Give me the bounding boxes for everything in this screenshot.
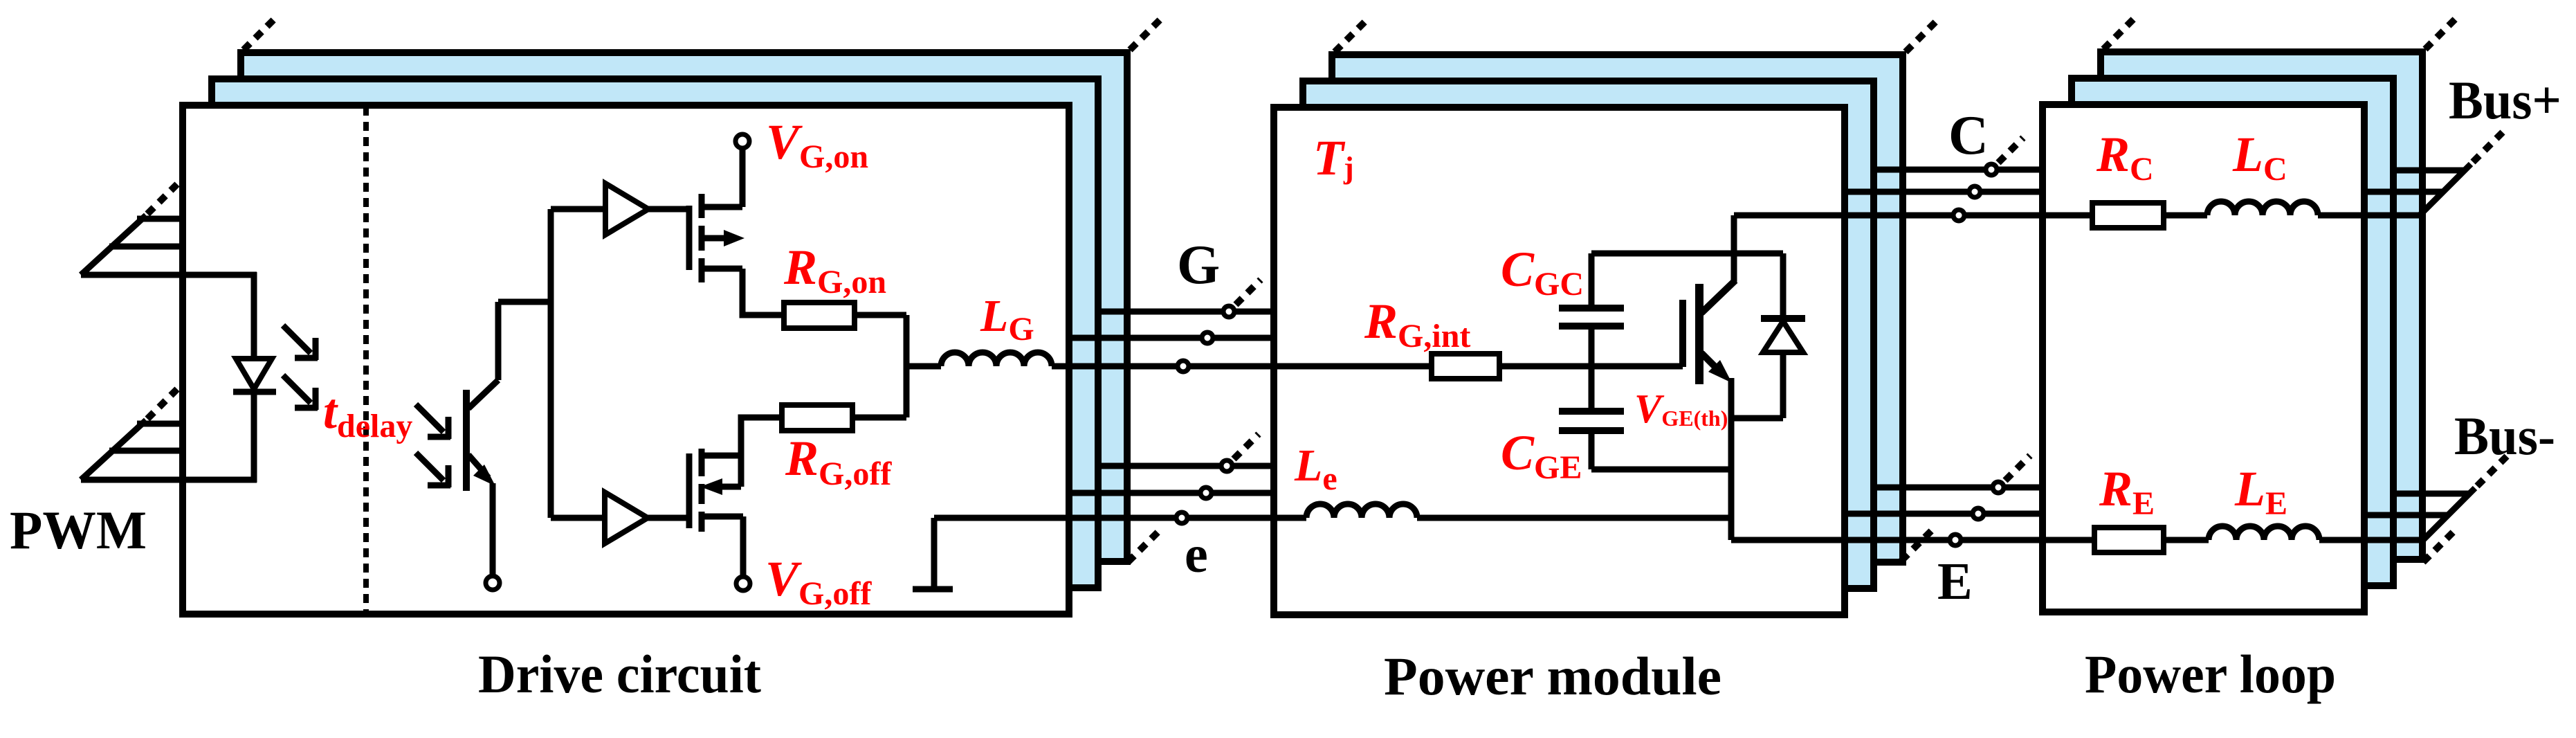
wire emitter to diode anode: [1731, 415, 1783, 422]
LED emission arrow 2: [283, 375, 318, 410]
power module box stack layer 2: [1303, 81, 1874, 588]
power module box stack layer 3 (back): [1332, 55, 1903, 562]
wire RG,int to IGBT gate: [1499, 363, 1683, 370]
node E connector layer2: [1973, 508, 1984, 519]
wire Le to emitter: [1417, 515, 1731, 521]
power loop box stack layer 3 (back): [2101, 52, 2422, 559]
drive circuit box layer 1 (front): [183, 105, 1069, 614]
buffer U1: [605, 183, 648, 235]
wire junction to LG: [904, 363, 941, 370]
svg-text:Bus+: Bus+: [2449, 70, 2561, 130]
resistor RG,int: [1432, 354, 1499, 379]
node e connector layer3: [1221, 460, 1232, 471]
stack continuation dashes, drive box top-left: [244, 17, 276, 50]
drive circuit box stack layer 3 (back): [241, 53, 1127, 561]
power loop box layer 1 (front): [2043, 105, 2364, 612]
wire G line layer2: [1069, 335, 1274, 341]
stack continuation dashes, power module top-left: [1335, 19, 1367, 52]
wire RE to LE: [2164, 537, 2209, 543]
power module box layer 1 (front): [1274, 107, 1845, 615]
wire C line layer3: [1874, 167, 2043, 173]
LED emission arrow 1: [283, 325, 318, 360]
wire RG,on to junction: [855, 312, 906, 318]
wire G line layer3: [1098, 309, 1274, 315]
wire e line layer1 (ground to Le): [934, 515, 1306, 521]
wire to lower buffer: [551, 515, 605, 521]
transistor Q3 (lower MOSFET): [689, 449, 743, 532]
node C connector layer1: [1953, 210, 1964, 221]
ground: [913, 518, 953, 589]
stack continuation dashes, power module top-right: [1906, 19, 1938, 52]
wire buffer input node vertical: [548, 209, 554, 518]
wire Q2 source to RG,on: [742, 269, 784, 315]
wire LED anode: [251, 272, 257, 390]
Bus+ fan dashes: [2473, 132, 2503, 162]
svg-text:PWM: PWM: [10, 500, 147, 560]
PWM upper fan wire layer3: [137, 216, 183, 222]
node e connector layer1: [1176, 512, 1187, 523]
LED D1 of optocoupler: [233, 359, 276, 392]
wire Q3 drain to RG,off: [741, 417, 782, 456]
Bus- fan wire layer2: [2364, 512, 2447, 519]
wire RC to LC: [2164, 213, 2207, 219]
inductor LG: [941, 352, 1052, 366]
svg-text:C: C: [1948, 105, 1989, 166]
PWM lower fan dashes: [147, 389, 177, 419]
wire LED cathode: [251, 392, 257, 483]
light arrow 2 into phototransistor: [416, 453, 450, 487]
svg-text:Bus-: Bus-: [2454, 406, 2555, 466]
stack dashes above e connectors: [1234, 434, 1259, 459]
node C connector layer2: [1969, 186, 1980, 197]
phototransistor Q1: [466, 302, 498, 491]
Bus- fan diagonal: [2423, 488, 2475, 540]
wire Q2 drain to VG,on terminal: [740, 148, 746, 207]
svg-text:Power loop: Power loop: [2085, 644, 2336, 704]
PWM lower input fan diagonal: [81, 420, 146, 480]
stack dashes above G connectors: [1236, 280, 1261, 305]
stack continuation dashes, power loop bottom-right corner: [2423, 532, 2454, 562]
drive circuit box stack layer 2: [212, 79, 1098, 588]
wire IGBT emitter vertical: [1728, 378, 1735, 540]
PWM lower fan wire layer3: [137, 421, 183, 427]
buffer U2: [605, 492, 648, 543]
node G connector layer2: [1202, 332, 1213, 343]
capacitor CGE: [1559, 411, 1624, 431]
svg-text:E: E: [1937, 552, 1973, 611]
svg-text:e: e: [1185, 525, 1208, 584]
stack dashes above C connectors: [1998, 138, 2023, 163]
node G connector layer3: [1223, 306, 1234, 317]
wire junction vertical node A: [904, 315, 910, 417]
resistor RG,off: [782, 405, 852, 431]
stack continuation dashes, power module bottom-right corner: [1901, 528, 1935, 561]
PWM upper fan wire layer2: [109, 244, 183, 250]
Bus- fan wire layer3: [2393, 491, 2469, 497]
t_delay dashed divider: [363, 107, 369, 613]
stack dashes above E connectors: [2005, 456, 2030, 480]
resistor RE: [2094, 528, 2164, 552]
IGBT T1: [1683, 280, 1735, 384]
wire RG,off to junction: [852, 415, 906, 421]
wire C line layer1 (collector to RC): [1734, 213, 2092, 219]
wire phototransistor collector to node: [498, 299, 551, 305]
PWM upper input fan diagonal: [81, 215, 146, 275]
stack continuation dashes, drive box bottom-right corner: [1128, 532, 1158, 562]
Bus+ fan wire layer2: [2364, 189, 2443, 195]
terminal VG,on: [736, 134, 749, 148]
wire e line layer2: [1069, 490, 1274, 496]
wire E line layer2: [1845, 511, 2043, 517]
stack continuation dashes, power loop top-left: [2103, 17, 2136, 49]
light arrow 1 into phototransistor: [416, 404, 450, 439]
PWM upper fan wire layer1: [81, 272, 257, 278]
node G connector layer1: [1178, 361, 1189, 372]
stack continuation dashes, power loop top-right: [2425, 17, 2458, 49]
node C connector layer3: [1986, 164, 1997, 175]
Bus- fan dashes: [2477, 456, 2507, 486]
stack continuation dashes, drive box top-right: [1130, 17, 1162, 50]
svg-text:Drive circuit: Drive circuit: [478, 644, 761, 704]
node E connector layer1: [1950, 534, 1961, 546]
terminal VG,off: [736, 577, 750, 591]
inductor LE: [2209, 526, 2319, 540]
inductor LC: [2207, 201, 2318, 215]
resistor RC: [2092, 203, 2164, 228]
node E connector layer3: [1993, 482, 2004, 493]
resistor RG,on: [784, 303, 855, 328]
svg-text:G: G: [1177, 235, 1220, 296]
wire Q3 source to VG,off terminal: [740, 516, 747, 577]
wire C line layer2: [1845, 189, 2043, 195]
wire E line layer3: [1874, 485, 2043, 491]
inductor Le: [1306, 504, 1417, 518]
wire to upper buffer: [551, 206, 605, 213]
PWM upper fan dashes: [147, 184, 177, 214]
wire LG to RG,int (gate line G): [1052, 363, 1432, 370]
Bus+ fan wire layer3: [2393, 168, 2465, 174]
power loop box stack layer 2: [2072, 78, 2393, 586]
node e connector layer2: [1200, 487, 1212, 498]
wire LE to Bus- fan: [2319, 537, 2423, 543]
wire E line layer1 (emitter to RE): [1731, 537, 2094, 543]
Bus+ fan diagonal: [2420, 164, 2471, 215]
wire LC to Bus+ fan: [2318, 213, 2420, 219]
wire buffer U1 to Q2 gate: [648, 206, 689, 213]
capacitor CGC: [1559, 308, 1624, 326]
wire e line layer3: [1098, 463, 1274, 469]
phototransistor emitter terminal: [486, 576, 500, 590]
transistor Q2 (upper MOSFET): [689, 194, 745, 282]
wire phototransistor emitter: [490, 483, 496, 576]
diode D2 (freewheeling): [1761, 253, 1805, 418]
wire collector top rail: [1591, 251, 1783, 257]
wire buffer U2 to Q3 gate: [648, 515, 689, 521]
PWM lower fan wire layer2: [109, 448, 183, 454]
wire IGBT collector: [1731, 215, 1737, 282]
wire gate capacitor node vertical: [1589, 253, 1595, 469]
svg-text:Power module: Power module: [1384, 646, 1721, 706]
wire CGE to emitter: [1591, 467, 1731, 473]
PWM lower fan wire layer1: [81, 477, 257, 483]
